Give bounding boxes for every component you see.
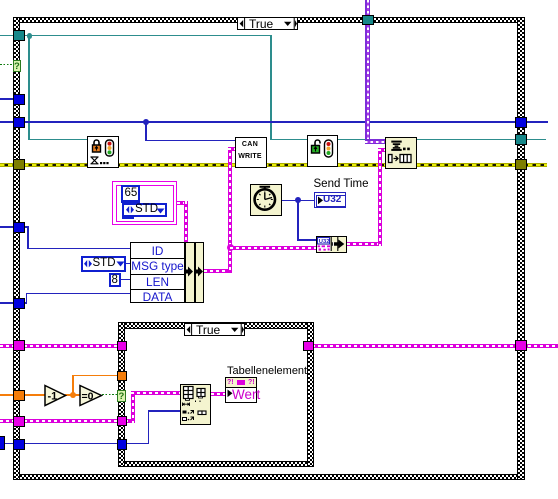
node: orange junction dot bbox=[70, 392, 76, 398]
tunnel: magenta left y421 bbox=[13, 416, 25, 427]
wire: magenta y247 junction to ToU32 bbox=[230, 246, 316, 250]
case selector label (outer): True bbox=[237, 17, 298, 31]
horizontal resize arrows bbox=[182, 403, 189, 407]
wire: blue enum STD to bundle MSG type bbox=[126, 263, 131, 265]
tunnel: magenta right y345 bbox=[515, 340, 527, 351]
queue hourglass icon bbox=[391, 141, 401, 143]
tunnel: blue right y122 bbox=[515, 117, 527, 128]
wire: blue clock output to U32 indicator bbox=[282, 200, 314, 202]
node: Wert cluster indicator bbox=[225, 377, 257, 403]
tunnel: blue left y444 bbox=[13, 439, 25, 450]
case structure (outer) bottom border bbox=[13, 474, 525, 480]
tunnel: magenta left y345 bbox=[13, 340, 25, 351]
filled square row bbox=[182, 411, 186, 414]
tunnel: magenta inner-left y345 bbox=[117, 341, 127, 351]
wire: teal vertical x271 down bbox=[270, 35, 272, 140]
hourglass bbox=[91, 157, 99, 164]
tunnel: teal on top border bbox=[362, 15, 374, 25]
two boxes right bbox=[198, 411, 202, 415]
node: numeric constant 65 bbox=[121, 185, 141, 204]
wire: magenta vertical x230 up to CAN WRITE bbox=[228, 147, 232, 273]
wire: magenta bundle output to x230 bbox=[204, 269, 232, 273]
wire: orange stub left y395 bbox=[0, 394, 14, 396]
label: Send Time bbox=[314, 178, 369, 190]
node: blue junction dot clock bbox=[295, 197, 301, 203]
case structure (outer) left border bbox=[13, 17, 20, 480]
label: Tabellenelement bbox=[227, 365, 307, 377]
node: Tick Count (ms) clock bbox=[250, 184, 282, 216]
node: magenta junction dot x230 y247 bbox=[227, 244, 234, 251]
traffic light bbox=[325, 140, 333, 157]
wire: green boolean dotted stub to outer selector bbox=[0, 64, 13, 66]
node: Release Semaphore VI bbox=[307, 135, 338, 167]
node: Enqueue Element VI bbox=[385, 137, 417, 169]
node: CAN WRITE subVI bbox=[235, 137, 267, 168]
node: cluster constant frame (65/STD) bbox=[112, 181, 177, 225]
wire: teal enqueue node to right tunnel bbox=[416, 139, 516, 141]
node: decrement -1 triangle bbox=[44, 384, 67, 407]
tunnel: blue inner-left y444 bbox=[117, 439, 127, 450]
node: U32 indicator Send Time bbox=[314, 192, 347, 208]
wire: blue stub right of border y122 bbox=[524, 121, 548, 123]
tunnel: blue left y122 bbox=[13, 117, 25, 128]
wire: blue stub left y99 bbox=[0, 98, 14, 100]
tunnel: magenta inner-right y345 bbox=[303, 341, 314, 351]
svg-text:U32: U32 bbox=[319, 239, 330, 245]
tunnel: magenta inner-left y421 bbox=[117, 416, 127, 426]
tunnel: blue left y227 bbox=[13, 222, 25, 233]
wire: purple bend into enqueue node bbox=[365, 139, 385, 144]
case structure (inner) top border bbox=[118, 322, 315, 329]
svg-text:-1: -1 bbox=[48, 391, 58, 403]
wire: blue into CAN WRITE bbox=[145, 140, 236, 142]
wire: olive error wire across diagram bbox=[0, 163, 547, 167]
wire: teal horizontal into acquire semaphore bbox=[28, 139, 88, 141]
tunnel: orange left y395 bbox=[13, 390, 25, 401]
wire: magenta main y345 right part bbox=[306, 344, 558, 348]
node: table element subVI bbox=[180, 384, 212, 425]
traffic light bbox=[106, 140, 114, 156]
node: bundle (CAN frame) name rows bbox=[130, 242, 185, 303]
tunnel: teal right y140 bbox=[515, 134, 527, 145]
node: equal to 0? triangle bbox=[79, 384, 103, 407]
wire: teal semaphore stub left of border bbox=[0, 35, 14, 37]
node: Acquire Semaphore VI bbox=[87, 136, 119, 168]
tunnel: olive right bbox=[515, 159, 527, 170]
wire: magenta vertical x380 up to enqueue bbox=[378, 148, 382, 246]
wire: orange branch up to inner tunnel bbox=[72, 375, 74, 395]
small grid right bbox=[197, 389, 205, 397]
wire: magenta main y345 left part bbox=[0, 344, 120, 348]
wire: purple vertical from image top bbox=[365, 0, 370, 141]
wire: blue constant 8 to bundle LEN bbox=[120, 279, 130, 281]
tunnel: blue left y303 bbox=[13, 298, 25, 309]
wire: orange -1 to =0 bbox=[65, 394, 80, 396]
wire: teal release semaphore to purple bend bbox=[338, 139, 366, 141]
wire: teal vertical x28 down bbox=[28, 35, 30, 140]
case structure (outer) top border bbox=[13, 17, 525, 24]
node: numeric constant 8 bbox=[109, 273, 121, 287]
case structure (inner) right border bbox=[307, 322, 314, 467]
element to queue icon bbox=[389, 155, 393, 163]
lock body bbox=[93, 145, 101, 152]
wire: magenta table node to Wert indicator bbox=[211, 392, 226, 396]
node: bundle output arrows bbox=[183, 266, 205, 277]
wire: blue main horizontal y122 bbox=[0, 121, 517, 123]
big table grid bbox=[183, 387, 193, 399]
node: teal junction dot bbox=[27, 33, 33, 39]
wire: blue bottom y444 across to inner structure bbox=[5, 443, 119, 445]
wire: blue left tunnel y227 into bundle ID bbox=[0, 226, 28, 228]
svg-text:=0: =0 bbox=[82, 391, 94, 403]
wire: teal stub right of border bbox=[524, 139, 546, 141]
wire: teal horizontal top bbox=[20, 35, 272, 37]
node: bundle input/output strips bbox=[185, 242, 195, 303]
wire: magenta y421 from edge to inner tunnel bbox=[0, 419, 122, 423]
wire: magenta ToU32 output right bbox=[347, 242, 382, 246]
case structure (outer) right border bbox=[517, 17, 525, 480]
node: ring constant STD (in cluster) bbox=[122, 203, 167, 218]
wire: green boolean dotted =0 to inner selector bbox=[102, 394, 118, 396]
hollow square row bbox=[182, 418, 186, 421]
node: ring constant STD (standalone) bbox=[81, 256, 127, 272]
tunnel: orange inner-left y376 bbox=[117, 371, 127, 381]
tunnel: inner case selector [?] bbox=[117, 390, 126, 402]
node: blue tunnel fragment at image left edge bbox=[0, 436, 5, 450]
wire: blue inside inner structure to table node bbox=[126, 443, 149, 445]
wire: magenta inside inner structure to table node bbox=[125, 419, 135, 423]
wire: magenta cluster constant down to bundle strip bbox=[177, 201, 188, 205]
case selector label (inner): True bbox=[184, 323, 245, 337]
open lock bbox=[312, 146, 320, 154]
wire: teal into release semaphore bbox=[270, 139, 307, 141]
node: blue junction dot y122 bbox=[143, 119, 149, 125]
wire: blue branch down x146 bbox=[145, 121, 147, 141]
tunnel: outer case selector [?] bbox=[13, 60, 22, 72]
tunnel: blue left y99 bbox=[13, 94, 25, 105]
case structure (inner) bottom border bbox=[118, 461, 315, 467]
wire: blue left tunnel y303 into bundle DATA bbox=[0, 302, 27, 304]
wire: orange tunnel to -1 triangle bbox=[20, 394, 46, 396]
node: To U32 bundle node bbox=[316, 236, 347, 253]
case structure (inner) left border bbox=[118, 322, 125, 467]
tunnel: olive left bbox=[13, 159, 25, 170]
tunnel: teal left bbox=[13, 30, 25, 41]
wire: blue branch down x298 to ToU32 bbox=[297, 200, 299, 240]
